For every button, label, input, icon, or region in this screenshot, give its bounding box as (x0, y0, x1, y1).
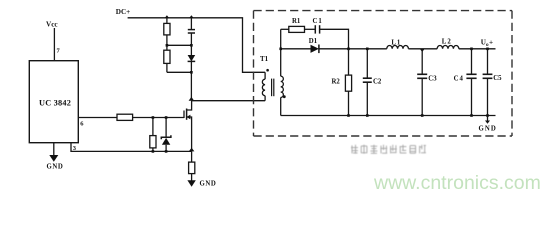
svg-text:7: 7 (57, 48, 61, 55)
IC U1 UC3842 box (29, 61, 78, 143)
svg-text:R2: R2 (332, 78, 341, 85)
wire L2 to output (459, 48, 496, 50)
wire snubber middle link (166, 35, 168, 50)
diode snubber (188, 55, 196, 72)
junction source / sense wire arrow (189, 148, 195, 152)
wire C5 top lead (487, 49, 489, 75)
wire D1 to output line (319, 48, 387, 50)
inductor L2 (437, 46, 459, 49)
resistor snubber upper (164, 23, 170, 35)
resistor gate series (117, 114, 133, 120)
svg-text:DC+: DC+ (116, 8, 130, 16)
svg-text:www.cntronics.com: www.cntronics.com (373, 172, 541, 194)
svg-text:Vcc: Vcc (46, 21, 58, 29)
svg-text:R1: R1 (292, 18, 301, 25)
wire pin 6 to gate resistor (78, 117, 117, 119)
svg-text:GND: GND (200, 180, 217, 187)
wire C2 top lead (366, 49, 368, 78)
transformer T1 secondary winding (281, 29, 284, 115)
svg-text:GND: GND (47, 163, 64, 170)
svg-text:D1: D1 (309, 38, 318, 45)
svg-text:Uo+: Uo+ (481, 39, 493, 48)
junction C5 / bottom rail (486, 114, 489, 117)
capacitor snubber upper lead (190, 18, 192, 30)
wire rail ground stub (487, 116, 489, 122)
wire C4 bottom lead (471, 78, 473, 115)
wire gate resistor to MOSFET gate (133, 117, 184, 119)
junction C4 / bottom rail (470, 114, 473, 117)
diode D1 (311, 45, 319, 54)
resistor R1 (289, 26, 305, 32)
svg-text:6: 6 (80, 121, 84, 128)
wire pin 3 drop (71, 143, 192, 152)
svg-text:C5: C5 (493, 75, 502, 82)
transformer core (272, 79, 274, 97)
ground IC arrow (49, 155, 58, 162)
junction C5 / main line (486, 48, 489, 51)
diode snubber lead (190, 45, 192, 55)
caption 输出整流滤波电路 (pseudo glyphs) (351, 145, 426, 154)
svg-text:C4: C4 (454, 76, 464, 83)
wire C5 bottom lead (487, 78, 489, 115)
junction R1C1 / main line (347, 48, 350, 51)
wire bottom rail (281, 115, 496, 117)
wire R1 to C1 (305, 28, 316, 30)
capacitor snubber plates (188, 30, 195, 33)
ground rail arrow (485, 121, 490, 124)
svg-text:C1: C1 (313, 18, 323, 25)
wire pulldown resistor top lead (152, 118, 154, 136)
ground MOSFET arrow (187, 180, 195, 187)
svg-text:C3: C3 (428, 76, 437, 83)
junction bottom wire / pulldown (152, 150, 155, 153)
inductor L1 (387, 45, 409, 48)
capacitor C1 (315, 25, 319, 33)
svg-text:GND: GND (479, 125, 497, 132)
junction snubber bottom right (190, 71, 193, 74)
capacitor snubber lower lead (190, 33, 192, 45)
wire L1 to L2 (408, 48, 437, 50)
junction drain node arrow (189, 97, 195, 101)
resistor snubber lower (164, 50, 170, 63)
capacitor C3 (417, 74, 427, 78)
wire R1C1 branch top (281, 28, 289, 30)
capacitor C2 (363, 78, 372, 82)
wire DC+ top rail (128, 18, 266, 73)
junction bottom wire / zener (165, 150, 168, 153)
wire R2 top lead (348, 49, 350, 75)
transformer T1 primary winding (262, 72, 265, 100)
resistor gate pulldown (150, 136, 156, 148)
junction gate wire / zener (165, 116, 168, 119)
resistor current sense (189, 162, 195, 174)
junction rail / snubber resistor (164, 15, 169, 18)
svg-text:L2: L2 (442, 38, 452, 45)
junction C2 / bottom rail (366, 114, 369, 117)
wire C4 top lead (471, 49, 473, 75)
capacitor C5 (483, 74, 493, 78)
wire snubber mid crossbar (167, 44, 192, 46)
capacitor C4 (466, 74, 476, 78)
transistor Q1 MOSFET (184, 101, 192, 152)
wire zener top lead (165, 118, 167, 138)
svg-text:C2: C2 (373, 78, 382, 85)
svg-text:UC 3842: UC 3842 (39, 98, 71, 107)
wire sense resistor to ground (191, 174, 193, 181)
junction C4 / main line (470, 48, 473, 51)
diode zener gate clamp (161, 135, 171, 151)
wire C1 to right corner (320, 29, 349, 49)
wire IC ground lead (53, 143, 55, 156)
transformer secondary phase dot (283, 95, 286, 98)
wire snubber to drain node (190, 72, 192, 100)
resistor R2 (345, 75, 351, 91)
junction C2 / main line (366, 48, 369, 51)
wire drain node to transformer primary (191, 100, 265, 102)
wire Vcc to IC pin 7 (53, 28, 55, 61)
wire C3 bottom lead (421, 78, 423, 115)
wire secondary to D1 (281, 48, 311, 50)
wire snubber resistor upper lead (166, 18, 168, 24)
wire snubber bottom crossbar (167, 71, 192, 73)
transformer primary phase dot (266, 69, 269, 72)
wire pulldown resistor bottom lead (152, 148, 154, 152)
junction C3 / bottom rail (421, 114, 424, 117)
svg-text:T1: T1 (260, 55, 269, 63)
wire C2 bottom lead (366, 82, 368, 115)
junction R2 / bottom rail (347, 114, 350, 117)
svg-text:L1: L1 (391, 39, 401, 46)
junction secondary / main line (279, 48, 282, 51)
junction rail / snubber capacitor (189, 15, 194, 18)
junction snubber mid left (166, 44, 169, 47)
junction gate wire / pulldown (152, 116, 155, 119)
wire source to sense resistor (191, 151, 193, 162)
junction snubber mid right (190, 44, 193, 47)
wire C3 top lead (421, 49, 423, 75)
junction C3 / main line (420, 49, 425, 52)
wire R2 bottom lead (348, 91, 350, 115)
dashed box output filter (254, 11, 513, 136)
wire snubber lower lead (166, 63, 168, 72)
